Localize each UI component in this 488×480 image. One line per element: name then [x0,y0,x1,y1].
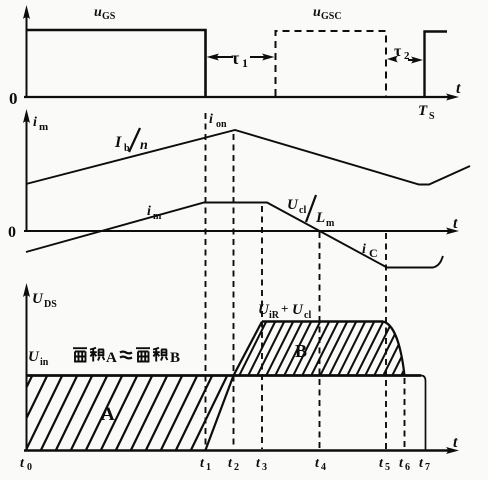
approx equals [120,352,132,359]
svg-text:b: b [124,143,130,154]
bottom t-axis [24,447,459,454]
svg-text:cl: cl [304,310,311,321]
tau1 left arrow [207,54,234,61]
svg-text:m: m [153,211,162,222]
dashed marker t2 [233,134,235,449]
hatched area B [230,322,428,376]
U_in clamp level line [26,374,421,377]
svg-text:t: t [453,434,458,451]
middle y-axis [23,109,30,231]
svg-text:i: i [33,115,37,130]
i_C label [362,242,378,260]
svg-text:L: L [315,210,325,226]
middle t-axis [24,228,459,235]
svg-text:0: 0 [27,462,32,473]
dashed marker t1 [205,113,207,449]
svg-text:0: 0 [8,224,16,241]
svg-text:in: in [40,357,49,368]
bottom y-axis [23,283,30,450]
面 #1 [73,348,87,361]
svg-text:τ: τ [394,43,402,60]
积 #2 [153,348,167,362]
svg-text:1: 1 [206,462,211,473]
svg-text:u: u [94,5,102,20]
U_DS rising edge t1-t3 [206,322,263,451]
svg-text:A: A [101,404,115,425]
svg-text:i: i [147,204,151,219]
tau2 left arrow [387,56,398,63]
svg-text:on: on [216,119,227,130]
svg-text:m: m [39,121,48,133]
svg-text:+: + [281,301,288,316]
u_GSC dashed pulse [276,31,387,96]
text mianji A = mianji B [73,348,104,362]
svg-text:A: A [106,350,117,366]
U_DS drop at t7 [421,376,426,451]
svg-text:U: U [28,349,40,365]
dashed marker t5 [385,233,387,449]
time tick labels t0..t7 [20,456,430,473]
svg-text:4: 4 [321,462,326,473]
tau2 right arrow [408,57,423,64]
tau2 label [394,43,410,62]
svg-text:τ: τ [231,48,240,68]
u_GSC label [313,5,342,22]
top t-axis [24,94,459,101]
dashed marker t4 [319,232,321,449]
svg-text:U: U [292,302,304,318]
U_DS axis label [32,291,57,310]
u_GS label [94,5,116,22]
u_GS pulse [27,30,206,97]
svg-text:C: C [369,246,378,260]
svg-text:GS: GS [102,11,116,22]
svg-text:DS: DS [44,299,57,310]
I_b/n label [114,128,148,154]
svg-text:2: 2 [234,462,239,473]
svg-text:u: u [313,5,321,20]
svg-text:T: T [418,103,428,119]
dashed marker t3 [261,206,263,449]
svg-text:1: 1 [242,56,248,70]
i_on label [209,112,227,130]
svg-text:S: S [429,111,435,122]
I_b/n waveform [26,130,470,185]
积 #1 [90,348,104,362]
svg-text:n: n [140,138,148,153]
i_m waveform [26,203,443,268]
U_DS falling edge t5-t6 [383,322,405,376]
next-cycle pulse edge at T_S [425,32,448,98]
svg-text:3: 3 [262,462,267,473]
svg-text:0: 0 [9,89,18,108]
svg-text:iR: iR [269,310,280,321]
svg-text:i: i [209,112,213,127]
面 #2 [136,348,150,361]
svg-text:B: B [170,350,180,366]
U_DS flat top t3-t5 [262,320,383,323]
i_m label [147,204,162,222]
hatched area A [0,376,242,450]
tau1 label [231,48,248,70]
svg-text:6: 6 [405,462,410,473]
top y-axis [23,5,30,97]
tau1 right arrow [250,54,275,61]
svg-text:t: t [453,215,458,232]
U_cl/L_m label [287,195,335,229]
svg-text:5: 5 [385,462,390,473]
middle axis label i_m [33,115,48,133]
svg-text:U: U [32,291,44,307]
U_in label [28,349,49,368]
T_S label [418,103,435,122]
svg-text:GSC: GSC [321,11,342,22]
svg-text:U: U [287,197,299,213]
svg-text:B: B [295,341,307,361]
svg-text:t: t [456,80,461,97]
U_iR + U_cl label [258,301,311,321]
dashed marker t6 [404,378,406,449]
svg-text:m: m [326,218,335,229]
svg-text:cl: cl [299,205,306,216]
svg-text:7: 7 [425,462,430,473]
svg-text:I: I [114,134,122,151]
svg-text:i: i [362,242,366,257]
